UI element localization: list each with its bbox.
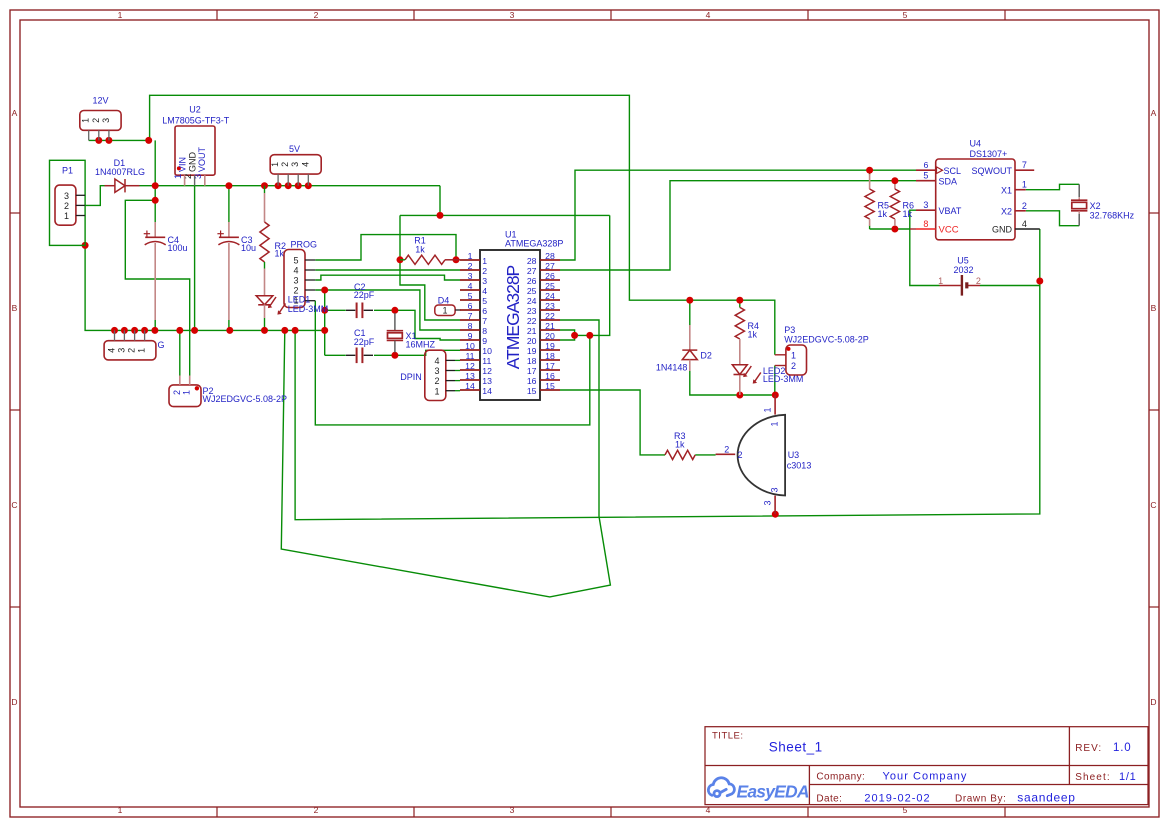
svg-text:13: 13 [465,371,475,381]
svg-text:5: 5 [923,171,928,181]
svg-text:VBAT: VBAT [939,206,962,216]
wire C2 row [325,309,346,311]
wire U2 gnd down to bus [194,186,196,331]
wire R6 stubs [894,181,896,185]
svg-text:12V: 12V [92,96,108,106]
svg-text:GND: GND [187,152,197,173]
junction node (739.8,395) [736,392,743,399]
svg-text:23: 23 [527,306,537,316]
U1 pin 17 [540,369,560,371]
junction node (288.2,185.7) [285,182,292,189]
junction node (400,259.8) [397,256,404,263]
svg-text:5: 5 [482,296,487,306]
U4 pin 1 X1 [1015,189,1026,191]
junction node (775.3,514.2) [772,511,779,518]
U1 pin 13 [460,379,480,381]
wire X2 crystal loop top [1026,184,1079,189]
svg-text:18: 18 [545,351,555,361]
svg-text:26: 26 [545,271,555,281]
svg-text:X2: X2 [1001,206,1012,216]
U1 pin 7 [460,319,480,321]
svg-text:C: C [1150,500,1156,510]
battery U5 pin 1 [940,285,961,287]
connector P1 [50,160,86,245]
U4 pin 3 VBAT [916,209,936,211]
wire main 5V rail [140,185,441,187]
junction node (1039.8,281) [1036,278,1043,285]
svg-text:D: D [1150,697,1156,707]
battery U5 pin 2 [968,285,980,287]
svg-text:16: 16 [527,376,537,386]
crystal X1 16MHZ [394,313,396,331]
wire pin22 to gnd polygon [281,320,610,597]
svg-text:1: 1 [270,162,280,167]
svg-text:17: 17 [527,366,537,376]
svg-text:1: 1 [81,118,91,123]
svg-text:X2: X2 [1090,201,1101,211]
U1 pin 11 [460,359,480,361]
wire VCC net to pin7 [400,215,460,320]
junction node (775.3,395) [772,392,779,399]
junction node (298.2,185.7) [295,182,302,189]
svg-text:1: 1 [791,350,796,360]
svg-text:3: 3 [510,805,515,815]
wire R5 bottom VCC row [869,226,871,230]
svg-text:18: 18 [527,356,537,366]
wire R5 top stub [869,170,871,175]
svg-text:TITLE:: TITLE: [712,731,744,742]
svg-text:4: 4 [1022,219,1027,229]
junction node (134.6,330.4) [131,327,138,334]
junction node (589.8,335.4) [586,332,593,339]
svg-text:1/1: 1/1 [1119,771,1136,783]
svg-text:1k: 1k [415,244,425,254]
svg-text:4: 4 [482,286,487,296]
wire C3 bottom [228,320,230,330]
U1 pin 4 [460,289,480,291]
U4 pin 5 SDA [916,180,936,182]
junction node (456,259.8) [453,256,460,263]
svg-text:EasyEDA: EasyEDA [737,781,809,801]
junction node (228.9,185.7) [225,182,232,189]
svg-text:7: 7 [468,311,473,321]
svg-text:25: 25 [527,286,537,296]
svg-text:3: 3 [116,348,126,353]
svg-text:17: 17 [545,361,555,371]
svg-text:28: 28 [527,256,537,266]
svg-text:2019-02-02: 2019-02-02 [864,792,930,804]
EasyEDA logo [708,778,734,797]
junction node (108.9,140.4) [105,137,112,144]
svg-text:20: 20 [545,331,555,341]
svg-text:3: 3 [290,162,300,167]
svg-text:2: 2 [314,10,319,20]
svg-text:3: 3 [923,200,928,210]
svg-text:2: 2 [91,118,101,123]
svg-text:22pF: 22pF [354,290,375,300]
junction node (394.9,355.3) [391,352,398,359]
wire 12V down to main rail [154,140,156,185]
svg-text:27: 27 [545,261,555,271]
crystal X2 32.768KHz [1078,184,1080,197]
svg-text:1: 1 [118,10,123,20]
junction node (574.6,335.4) [571,332,578,339]
svg-text:1k: 1k [878,209,888,219]
U1 pin 14 [460,389,480,391]
svg-text:1: 1 [482,256,487,266]
svg-text:GND: GND [992,225,1013,235]
svg-text:2: 2 [468,261,473,271]
svg-text:22: 22 [545,311,555,321]
resistor R6 1k [894,184,896,189]
wire C4 bottom to bus [154,320,156,330]
junction node (440,215.4) [437,212,444,219]
U4 pin 6 SCL [916,169,936,171]
svg-text:B: B [1151,303,1157,313]
svg-text:2: 2 [1022,201,1027,211]
wire gnd bus to long bottom run [295,229,1040,520]
junction node (154.9,330.4) [151,327,158,334]
junction node (85.1,245.4) [82,242,89,249]
svg-text:22pF: 22pF [354,337,375,347]
svg-text:3: 3 [763,500,773,505]
svg-text:7: 7 [1022,160,1027,170]
wire C4 top [154,186,156,222]
svg-text:Sheet:: Sheet: [1075,772,1111,783]
svg-text:24: 24 [527,296,537,306]
svg-text:X1: X1 [1001,185,1012,195]
svg-text:LM7805G-TF3-T: LM7805G-TF3-T [162,116,230,126]
svg-text:1: 1 [118,805,123,815]
svg-text:1k: 1k [275,249,285,259]
svg-text:ATMEGA328P: ATMEGA328P [505,238,563,248]
U4 pin 4 GND [1015,228,1040,230]
svg-text:A: A [1151,108,1157,118]
svg-text:3: 3 [468,271,473,281]
svg-text:SQWOUT: SQWOUT [972,166,1013,176]
svg-text:2: 2 [64,201,69,211]
wire C3 top [228,186,230,222]
connector P2 [169,385,201,407]
svg-text:saandeep: saandeep [1017,790,1075,804]
svg-text:2: 2 [280,162,290,167]
svg-text:12: 12 [482,366,492,376]
svg-text:15: 15 [527,386,537,396]
svg-text:27: 27 [527,266,537,276]
wire PROG3 to pin3 [315,275,460,280]
svg-text:16MHZ: 16MHZ [406,339,436,349]
svg-text:5: 5 [903,10,908,20]
U1 pin 23 [540,309,560,311]
junction node (114.5,330.4) [111,327,118,334]
svg-text:21: 21 [527,326,537,336]
svg-text:2: 2 [127,348,137,353]
wire P3 pin2 down [774,366,776,396]
svg-text:24: 24 [545,291,555,301]
svg-text:1.0: 1.0 [1113,742,1131,754]
wire R4 top stub [739,300,741,307]
svg-text:8: 8 [468,321,473,331]
U1 pin 18 [540,359,560,361]
wire xtal top to pin9 [395,310,460,340]
svg-text:3: 3 [482,276,487,286]
wire bottom D2/LED2/P3/U3 [690,371,776,395]
LED2 LED-3MM [739,339,741,365]
svg-text:G: G [157,340,164,350]
junction node (98.8,140.4) [95,137,102,144]
U1 pin 6 [460,309,480,311]
svg-text:1: 1 [1022,180,1027,190]
svg-text:4: 4 [468,281,473,291]
svg-text:2032: 2032 [953,265,973,275]
svg-text:5: 5 [293,256,298,266]
svg-text:10: 10 [465,341,475,351]
svg-text:1N4007RLG: 1N4007RLG [95,167,145,177]
junction node (869.6,170.2) [866,167,873,174]
U1 pin 3 [460,279,480,281]
wire X2 crystal loop bottom [1026,211,1079,226]
svg-text:1: 1 [137,348,147,353]
wire AVCC horizontal [400,214,610,216]
svg-text:1: 1 [442,306,447,316]
svg-text:12: 12 [465,361,475,371]
wire pin21/20 join [560,330,575,340]
svg-text:32.768KHz: 32.768KHz [1090,210,1135,220]
svg-text:3: 3 [510,10,515,20]
svg-text:1: 1 [182,390,192,395]
svg-text:Date:: Date: [816,793,842,804]
wire 12V riser to top rail [150,95,775,355]
svg-text:1: 1 [770,421,780,426]
U1 pin 2 [460,269,480,271]
svg-text:REV:: REV: [1075,743,1102,754]
svg-text:4: 4 [300,162,310,167]
junction node (155.2,200.3) [152,197,159,204]
svg-text:28: 28 [545,251,555,261]
wire PROG2 to pin8 [315,290,460,330]
wire VCC red segment [910,228,916,230]
svg-text:VIN: VIN [178,157,188,172]
svg-text:1: 1 [64,211,69,221]
svg-text:P3: P3 [784,325,795,335]
svg-text:1: 1 [938,276,943,286]
wire P1 pin2 to D1 [85,186,105,206]
svg-text:U4: U4 [970,139,982,149]
junction node (894.9,229) [891,226,898,233]
svg-text:DS1307+: DS1307+ [970,149,1008,159]
svg-text:4: 4 [434,356,439,366]
junction node (144.6,330.4) [141,327,148,334]
svg-text:ATMEGA328P: ATMEGA328P [503,265,523,369]
svg-text:26: 26 [527,276,537,286]
svg-text:VCC: VCC [939,225,959,236]
U1 pin 8 [460,329,480,331]
U1 pin 1 [460,259,480,261]
U4 pin 7 SQWOUT [1015,169,1034,171]
gate U3 c3013 [738,415,786,496]
svg-text:25: 25 [545,281,555,291]
svg-text:WJ2EDGVC-5.08-2P: WJ2EDGVC-5.08-2P [203,394,288,404]
wire PROG1 down and over to pins 20/21 [315,301,590,425]
wire R3 to U3 pin2 [695,454,715,456]
svg-text:15: 15 [545,381,555,391]
svg-text:10u: 10u [241,243,256,253]
resistor R5 1k [869,174,871,189]
junction node (324.7,310.3) [321,307,328,314]
svg-text:P1: P1 [62,166,73,176]
svg-text:9: 9 [468,331,473,341]
U1 pin 22 [540,319,560,321]
svg-text:22: 22 [527,316,537,326]
svg-text:9: 9 [482,336,487,346]
wire battery right to gnd [980,285,1040,287]
capacitor C4 100u [154,222,156,237]
U1 pin 15 [540,389,560,391]
capacitor C3 10u [228,222,230,237]
wire battery left to VBAT [910,210,940,285]
wire C2 branch vertical [324,290,326,355]
svg-text:1k: 1k [903,209,913,219]
wire P2 pin2 to bus [179,330,181,375]
svg-text:8: 8 [923,219,928,229]
svg-text:2: 2 [482,266,487,276]
LED1 LED-3MM [264,269,266,296]
U1 pin 10 [460,349,480,351]
svg-text:20: 20 [527,336,537,346]
svg-text:1k: 1k [675,439,685,449]
U1 pin 19 [540,349,560,351]
diode D2 1N4148 [689,325,691,350]
wire LED1 bottom to bus [264,318,266,330]
junction node (894.9,180.7) [891,177,898,184]
svg-text:19: 19 [527,346,537,356]
wire pin15 to R3 [560,390,665,455]
svg-text:3: 3 [434,366,439,376]
wire 12V to D2 top [689,300,691,325]
svg-text:c3013: c3013 [787,461,812,471]
svg-text:2: 2 [976,276,981,286]
svg-text:10: 10 [482,346,492,356]
svg-text:2: 2 [434,376,439,386]
junction node (148.7,140.4) [145,137,152,144]
junction node (308.3,185.7) [305,182,312,189]
junction node (124.4,330.4) [121,327,128,334]
svg-text:1: 1 [763,407,773,412]
svg-text:23: 23 [545,301,555,311]
U1 pin 28 [540,259,560,261]
svg-text:6: 6 [923,160,928,170]
svg-text:19: 19 [545,341,555,351]
svg-text:Drawn By:: Drawn By: [955,793,1007,804]
junction node (284.8,330.4) [281,327,288,334]
U1 pin 20 [540,339,560,341]
wire pin28 to SCL [560,170,916,260]
svg-text:WJ2EDGVC-5.08-2P: WJ2EDGVC-5.08-2P [784,335,869,345]
connector G [104,341,156,360]
junction node (689.8,300.2) [686,297,693,304]
svg-text:1N4148: 1N4148 [656,363,688,373]
svg-text:SDA: SDA [939,176,958,186]
svg-text:D2: D2 [700,350,712,360]
svg-text:6: 6 [482,306,487,316]
wire P1 shell to gnd bus [85,245,325,330]
svg-text:1: 1 [468,251,473,261]
U1 pin 5 [460,299,480,301]
svg-text:4: 4 [107,348,117,353]
U1 pin 16 [540,379,560,381]
U4 pin 2 X2 [1015,210,1026,212]
svg-text:D: D [11,697,17,707]
wire pin27 to SDA [560,181,916,270]
junction node (394.9,310.3) [391,307,398,314]
wire xtal bottom to pin10 [395,350,460,355]
svg-text:7: 7 [482,316,487,326]
junction node (155.2,185.7) [152,182,159,189]
svg-text:VOUT: VOUT [197,146,207,172]
junction node (324.7,290) [321,287,328,294]
junction node (194.6,330.4) [191,327,198,334]
junction node (278.1,185.7) [275,182,282,189]
resistor R2 1k [264,186,266,193]
svg-text:DPIN: DPIN [400,372,422,382]
svg-text:LED-3MM: LED-3MM [288,304,329,314]
svg-text:2: 2 [791,361,796,371]
svg-text:2: 2 [172,390,182,395]
svg-text:4: 4 [706,10,711,20]
svg-text:13: 13 [482,376,492,386]
U1 pin 26 [540,279,560,281]
junction node (264.5,185.7) [261,182,268,189]
junction node (229.8,330.4) [226,327,233,334]
svg-text:5V: 5V [289,144,300,154]
U1 pin 21 [540,329,560,331]
svg-text:8: 8 [482,326,487,336]
title block [705,727,1148,805]
svg-text:3: 3 [101,118,111,123]
junction node (739.8,300.2) [736,297,743,304]
svg-text:2: 2 [314,805,319,815]
svg-text:3: 3 [293,276,298,286]
U1 pin 24 [540,299,560,301]
svg-text:B: B [12,303,18,313]
resistor R4 1k [735,307,744,339]
svg-text:Your Company: Your Company [883,770,968,782]
U1 pin 25 [540,289,560,291]
wire PROG5 jumper to R1 right [315,235,456,260]
svg-text:100u: 100u [168,243,188,253]
wire C1 row [325,354,346,356]
junction node (264.5,330.4) [261,327,268,334]
svg-text:1k: 1k [748,329,758,339]
svg-text:PROG: PROG [291,240,318,250]
svg-text:U2: U2 [189,105,201,115]
wire 12V pins bus [89,139,149,141]
U1 pin 12 [460,369,480,371]
svg-text:2: 2 [724,445,729,455]
svg-text:5: 5 [468,291,473,301]
svg-text:14: 14 [465,381,475,391]
svg-text:11: 11 [482,356,491,366]
svg-text:11: 11 [465,351,474,361]
U1 pin 27 [540,269,560,271]
wire DC net: D1 out to P2 pin1 [125,200,189,375]
svg-text:5: 5 [903,805,908,815]
wire rail drop to AVCC net [439,186,441,216]
svg-text:3: 3 [770,487,780,492]
svg-text:4: 4 [293,266,298,276]
svg-text:3: 3 [64,191,69,201]
svg-text:C: C [11,500,17,510]
